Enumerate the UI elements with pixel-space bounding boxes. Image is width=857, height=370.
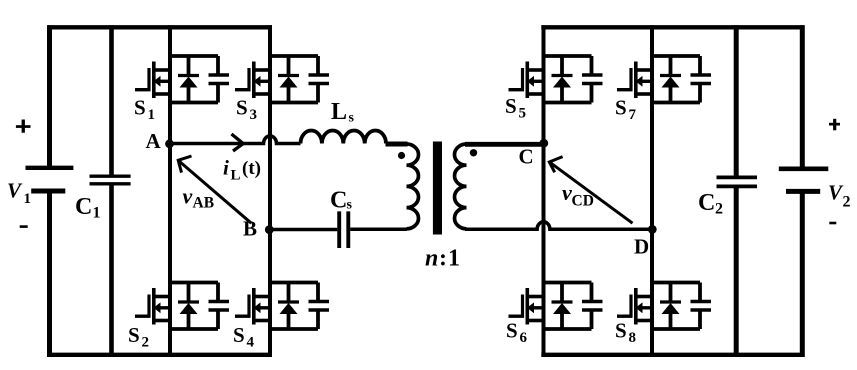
battery V1 (wires) [47, 25, 52, 357]
label - (V1 negative) [20, 225, 28, 228]
svg-text:S: S [236, 96, 248, 120]
svg-text:s: s [349, 111, 355, 126]
wire: right bottom rail [541, 353, 804, 357]
svg-text:CD: CD [572, 193, 594, 210]
svg-text:1: 1 [93, 205, 101, 222]
label S7 [615, 95, 637, 123]
wire: transformer secondary top to node C (thick) [465, 142, 544, 147]
label V1 [7, 179, 31, 208]
wire: right bridge leg 1 [542, 25, 546, 357]
wire: left bottom rail [47, 353, 272, 357]
label S4 [233, 323, 255, 351]
label - (V2 negative) [829, 222, 836, 225]
svg-text:S: S [233, 323, 245, 347]
svg-text:2: 2 [715, 201, 723, 218]
battery V2 short plate [786, 189, 820, 194]
wire: inductor to transformer primary (thick) [386, 142, 408, 147]
transformer secondary winding [455, 144, 467, 229]
capacitor Cs plates [339, 211, 348, 248]
svg-text:2: 2 [142, 334, 150, 350]
label Ls [331, 99, 355, 126]
wire: left bridge leg 2 [268, 25, 272, 357]
voltage arrow v_AB (B to A) [178, 156, 251, 223]
wire: capacitor Cs to transformer primary bottom [350, 227, 407, 231]
switch S4 (MOSFET + body diode + capacitor) [235, 283, 329, 330]
label S8 [615, 319, 636, 347]
node D (dot) [648, 225, 657, 234]
label S3 [236, 96, 257, 124]
svg-text:v: v [562, 180, 572, 205]
svg-text:S: S [615, 95, 627, 119]
svg-text:i: i [223, 156, 229, 180]
svg-text:2: 2 [843, 194, 851, 211]
svg-text:V: V [7, 179, 23, 203]
wire: left top rail [47, 25, 272, 29]
label + (V2 positive) [829, 119, 840, 131]
label S1 [134, 96, 155, 124]
svg-text:L: L [231, 168, 241, 184]
label S5 [505, 94, 526, 122]
svg-text:n: n [425, 246, 438, 272]
switch S3 (MOSFET + body diode + capacitor) [235, 56, 329, 103]
svg-text:A: A [146, 129, 162, 153]
svg-text:S: S [505, 94, 517, 118]
label C2 [698, 190, 723, 218]
svg-text:S: S [134, 96, 146, 120]
label S6 [506, 319, 528, 347]
switch S1 (MOSFET + body diode + capacitor) [135, 56, 229, 103]
svg-text:7: 7 [629, 107, 637, 123]
capacitor C2 plates [717, 177, 758, 186]
svg-text:1: 1 [148, 107, 156, 123]
label + (V1 positive) [16, 120, 31, 133]
svg-text:D: D [634, 235, 649, 259]
svg-text:s: s [347, 198, 353, 213]
svg-text:B: B [243, 217, 257, 241]
capacitor C1 (wires) [109, 25, 114, 357]
battery V2 (wires) [800, 25, 805, 357]
voltage arrow v_CD (D to C) [549, 157, 632, 224]
label n:1 [425, 246, 460, 272]
wire: node A to inductor (with hop over leg 2) [170, 136, 301, 144]
svg-text:v: v [183, 184, 193, 209]
wire: transformer secondary bottom to node D (with hop over right leg 1) [465, 222, 652, 230]
battery V1 short plate [31, 189, 65, 194]
svg-text:5: 5 [519, 106, 527, 122]
switch S6 (MOSFET + body diode + capacitor) [509, 283, 603, 330]
svg-text:C: C [330, 188, 347, 214]
switch S7 (MOSFET + body diode + capacitor) [617, 56, 711, 103]
label S2 [128, 323, 149, 351]
transformer core bar [433, 142, 442, 235]
capacitor C2 (wires) [734, 25, 739, 357]
switch S8 (MOSFET + body diode + capacitor) [617, 283, 711, 330]
svg-text:3: 3 [250, 107, 258, 123]
label V2 [828, 180, 851, 210]
battery V1 long plate [26, 166, 74, 170]
svg-text:S: S [615, 319, 627, 343]
svg-text:1: 1 [448, 246, 460, 272]
wire: left bridge leg 1 [168, 25, 172, 357]
label v_AB [183, 184, 215, 212]
switch S2 (MOSFET + body diode + capacitor) [135, 283, 229, 330]
label Cs [330, 188, 353, 214]
label i_L(t) [223, 156, 261, 184]
svg-text:S: S [506, 319, 518, 343]
wire: node B to capacitor Cs [269, 228, 337, 232]
current direction arrow i_L [232, 134, 244, 151]
svg-text:C: C [698, 190, 715, 216]
svg-text:AB: AB [193, 194, 215, 211]
svg-text:S: S [128, 323, 140, 347]
svg-text:C: C [519, 145, 534, 169]
switch S5 (MOSFET + body diode + capacitor) [509, 56, 603, 103]
node A (dot) [165, 139, 174, 148]
node C (dot) [539, 139, 548, 148]
node B (dot) [265, 225, 274, 234]
svg-text:8: 8 [629, 330, 637, 346]
svg-text:6: 6 [520, 330, 528, 346]
transformer primary winding [407, 144, 419, 229]
capacitor C1 plates [90, 176, 131, 184]
inductor Ls [301, 130, 387, 143]
transformer primary polarity dot [398, 152, 405, 159]
transformer secondary polarity dot [470, 149, 477, 156]
svg-text:4: 4 [247, 335, 255, 351]
wire: right bridge leg 2 [650, 25, 654, 357]
svg-text:C: C [75, 194, 92, 220]
svg-text::: : [439, 246, 447, 272]
label C1 [75, 194, 101, 222]
wire: right top rail [541, 25, 804, 29]
svg-text:L: L [331, 99, 347, 125]
battery V2 long plate [779, 167, 829, 172]
svg-text:(t): (t) [242, 158, 261, 179]
label v_CD [562, 180, 594, 209]
svg-text:1: 1 [24, 191, 32, 207]
